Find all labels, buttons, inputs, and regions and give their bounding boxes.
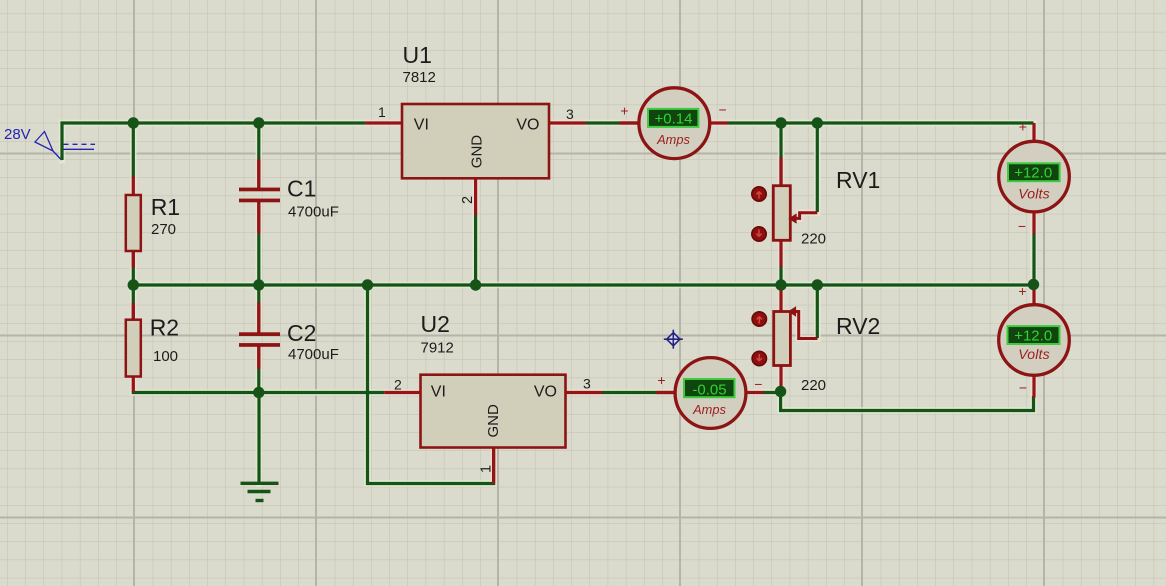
- svg-text:Volts: Volts: [1018, 185, 1050, 201]
- wire: V1 bottom to mid rail: [1032, 233, 1035, 285]
- svg-text:RV2: RV2: [836, 313, 880, 339]
- wire: R2 bottom lead to bottom rail: [133, 391, 384, 393]
- junction: mid rail / RV1 RV2: [775, 279, 786, 290]
- junction: mid rail / C1 C2: [253, 279, 264, 290]
- voltmeter V2: [999, 283, 1070, 398]
- svg-text:U2: U2: [421, 311, 450, 337]
- origin marker: [664, 330, 683, 349]
- wire: RV1 bottom lead: [779, 266, 782, 285]
- svg-text:Amps: Amps: [656, 132, 690, 147]
- svg-text:+12.0: +12.0: [1014, 328, 1052, 345]
- junction: mid rail / U1 GND: [470, 279, 481, 290]
- svg-text:3: 3: [583, 376, 591, 392]
- junction: mid rail / R1 R2: [128, 279, 139, 290]
- wire: C2 bottom lead: [257, 345, 260, 393]
- wire: RV2 wiper feed: [816, 285, 819, 338]
- wire: C1 bottom lead: [257, 202, 260, 285]
- junction: bottom rail / C2: [253, 387, 264, 398]
- junction: mid rail / RV2 wiper: [812, 279, 823, 290]
- svg-text:VI: VI: [431, 384, 446, 401]
- svg-text:U1: U1: [403, 42, 432, 68]
- svg-text:1: 1: [378, 104, 386, 120]
- wire halo layer: [62, 123, 1034, 484]
- svg-text:-0.05: -0.05: [692, 382, 726, 399]
- svg-text:GND: GND: [485, 404, 502, 438]
- svg-text:270: 270: [151, 221, 176, 238]
- wire: RV1 wiper feed: [816, 123, 819, 212]
- svg-text:C2: C2: [287, 320, 316, 346]
- svg-text:+: +: [1019, 119, 1027, 135]
- svg-text:220: 220: [801, 377, 826, 394]
- junction: AM2 out / RV2 / return: [775, 386, 786, 397]
- wire: RV1 top lead: [779, 123, 782, 187]
- svg-text:3: 3: [566, 106, 574, 122]
- svg-text:VI: VI: [414, 116, 429, 133]
- junction: top rail / RV1 wiper: [812, 117, 823, 128]
- wire: R1 bottom lead: [132, 249, 135, 285]
- svg-text:220: 220: [801, 231, 826, 248]
- svg-text:+: +: [1018, 283, 1026, 299]
- svg-text:Volts: Volts: [1018, 346, 1050, 362]
- wire: mid rail: [133, 283, 1033, 286]
- resistor R1: [126, 177, 180, 268]
- regulator U1 7812: [366, 42, 586, 215]
- svg-text:+0.14: +0.14: [655, 111, 693, 128]
- resistor R2: [126, 303, 179, 392]
- svg-text:RV1: RV1: [836, 167, 880, 193]
- svg-text:2: 2: [460, 196, 476, 204]
- svg-text:4700uF: 4700uF: [288, 346, 339, 363]
- wire: U2 VO to ammeter AM2: [602, 391, 675, 394]
- junction: mid rail / voltmeters: [1028, 279, 1039, 290]
- ammeter AM1: [620, 88, 728, 159]
- svg-text:2: 2: [394, 377, 402, 393]
- svg-text:1: 1: [478, 465, 494, 473]
- capacitor C1: [239, 159, 339, 233]
- wire: C2 top lead: [257, 285, 260, 333]
- potentiometer RV1: [752, 158, 881, 267]
- svg-text:7912: 7912: [421, 340, 454, 357]
- svg-text:+12.0: +12.0: [1014, 164, 1052, 181]
- svg-text:28V: 28V: [4, 126, 31, 143]
- ammeter AM2: [656, 358, 763, 429]
- svg-text:VO: VO: [516, 116, 539, 133]
- wire: ammeter AM1 to voltmeter V1 top: [728, 121, 1034, 124]
- svg-text:4700uF: 4700uF: [288, 204, 339, 221]
- svg-text:VO: VO: [534, 384, 557, 401]
- svg-text:7812: 7812: [403, 69, 436, 86]
- svg-text:GND: GND: [469, 135, 486, 169]
- svg-text:−: −: [754, 376, 762, 392]
- wire: U1 GND to mid rail: [474, 213, 477, 285]
- wire: R2 top lead: [132, 285, 135, 321]
- svg-text:R1: R1: [151, 194, 180, 220]
- svg-text:+: +: [620, 103, 628, 119]
- ground: [241, 393, 279, 501]
- capacitor C2: [239, 303, 339, 369]
- svg-text:100: 100: [153, 348, 178, 365]
- wire: mid rail to U2 GND loop: [368, 285, 494, 484]
- svg-text:R2: R2: [150, 315, 179, 341]
- potentiometer RV2: [752, 285, 880, 394]
- svg-text:−: −: [719, 101, 727, 117]
- svg-text:C1: C1: [287, 176, 316, 202]
- wire: U1 VO to ammeter AM1: [586, 121, 638, 124]
- svg-text:−: −: [1018, 218, 1026, 234]
- junction: top rail / R1: [128, 117, 139, 128]
- power terminal 28V: [4, 126, 95, 160]
- junction: mid rail / U2 loop: [362, 279, 373, 290]
- svg-text:−: −: [1019, 380, 1027, 396]
- voltmeter V1: [999, 119, 1070, 235]
- wire: bottom return to voltmeter V2: [781, 392, 1034, 411]
- junction: top rail / RV1: [775, 117, 786, 128]
- junction: top rail / C1: [253, 117, 264, 128]
- regulator U2 7912: [384, 311, 602, 484]
- wire: ammeter AM2 to junction: [763, 391, 781, 394]
- svg-text:+: +: [657, 372, 665, 388]
- wire: R1 top lead: [132, 123, 135, 178]
- wire: source to U1 VI (top rail): [62, 123, 366, 160]
- svg-text:Amps: Amps: [692, 402, 726, 417]
- wire: C1 top lead: [257, 123, 260, 188]
